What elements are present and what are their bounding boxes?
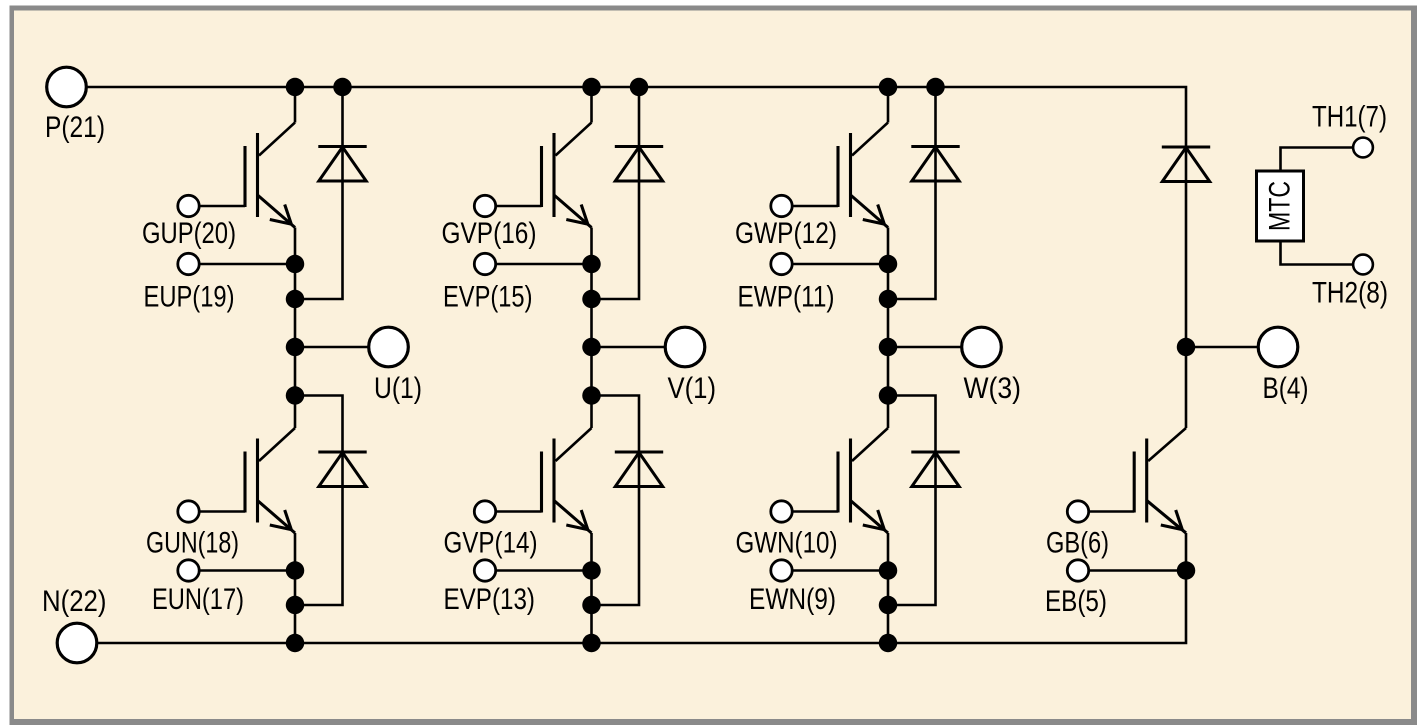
svg-text:GUN(18): GUN(18) xyxy=(146,527,239,560)
wire leg2 lower emitter to bottom bus xyxy=(590,533,593,643)
pin circle GVP(14) xyxy=(474,501,495,522)
wire leg3 collector drop from top bus xyxy=(887,87,890,123)
svg-text:GVP(14): GVP(14) xyxy=(444,527,538,560)
wire thermistor top lead xyxy=(1281,148,1353,172)
wire lower diode leg2 vertical xyxy=(592,396,640,606)
terminal N(22) xyxy=(57,623,97,663)
IGBT emitter diagonal upper leg3 xyxy=(851,195,889,228)
wire upper diode leg1 vertical xyxy=(295,87,343,299)
wire lower diode leg1 vertical xyxy=(295,396,343,606)
node leg1 output junction xyxy=(286,338,305,357)
node leg2 top bus junction xyxy=(582,78,601,97)
wire gate lead upper leg3 xyxy=(793,205,839,208)
IGBT gate bar upper leg3 xyxy=(836,146,839,207)
node leg3 upper emitter junction xyxy=(879,255,898,274)
wire gate lead lower leg1 xyxy=(200,510,246,513)
wire collector diagonal upper leg1 xyxy=(259,123,295,156)
pin circle GVP(16) xyxy=(474,195,495,216)
IGBT gate bar upper leg1 xyxy=(243,146,246,207)
node leg3 bottom bus junction xyxy=(879,634,898,653)
node leg3 lower emitter junction xyxy=(879,561,898,580)
node leg3 lower diode anode junction xyxy=(879,596,898,615)
pin circle GUN(18) xyxy=(178,501,199,522)
diode cathode bar lower leg3 xyxy=(911,450,959,453)
svg-text:W(3): W(3) xyxy=(964,372,1022,405)
node leg1 upper diode anode junction xyxy=(286,290,305,309)
svg-text:GUP(20): GUP(20) xyxy=(142,217,236,250)
svg-text:GVP(16): GVP(16) xyxy=(442,217,537,250)
pin circle TH2(8) xyxy=(1353,255,1373,275)
wire upper diode leg3 vertical xyxy=(888,87,936,299)
wire collector diagonal upper leg3 xyxy=(852,123,888,156)
IGBT emitter diagonal lower leg3 xyxy=(851,501,889,534)
IGBT emitter arrow brake Q7 xyxy=(1161,510,1183,530)
IGBT emitter arrow upper leg3 xyxy=(863,205,885,225)
wire output lead leg2 xyxy=(592,346,666,349)
svg-text:TH1(7): TH1(7) xyxy=(1312,101,1387,134)
wire collector diagonal upper leg2 xyxy=(556,123,592,156)
IGBT emitter diagonal lower leg2 xyxy=(554,501,592,534)
svg-text:TH2(8): TH2(8) xyxy=(1312,277,1388,310)
IGBT gate bar lower leg2 xyxy=(540,452,543,513)
wire emitter lead upper leg1 xyxy=(200,263,296,266)
node leg1 lower diode anode junction xyxy=(286,596,305,615)
IGBT emitter diagonal brake Q7 xyxy=(1147,501,1186,534)
wire upper diode leg2 vertical xyxy=(592,87,640,299)
IGBT body bar lower leg3 xyxy=(849,439,852,523)
pin circle EUN(17) xyxy=(178,560,199,581)
wire bottom bus N to right corner xyxy=(97,571,1186,644)
svg-text:EWP(11): EWP(11) xyxy=(738,281,835,314)
node leg1 lower emitter junction xyxy=(286,561,305,580)
IGBT body bar upper leg1 xyxy=(256,133,259,217)
node leg2 lower diode anode junction xyxy=(582,596,601,615)
node leg1 top bus junction xyxy=(286,78,305,97)
wire gate lead lower leg2 xyxy=(496,510,542,513)
svg-text:GWP(12): GWP(12) xyxy=(735,217,837,250)
svg-text:N(22): N(22) xyxy=(42,585,107,618)
IGBT emitter diagonal upper leg2 xyxy=(554,195,592,228)
wire brake collector drop xyxy=(1185,347,1188,428)
terminal P(21) xyxy=(47,67,87,107)
IGBT emitter diagonal upper leg1 xyxy=(258,195,296,228)
wire gate lead upper leg1 xyxy=(200,205,246,208)
wire collector diagonal lower leg1 xyxy=(259,428,295,461)
IGBT emitter arrow lower leg3 xyxy=(863,510,885,530)
IGBT emitter arrow lower leg2 xyxy=(566,510,588,530)
pin circle EB(5) xyxy=(1067,560,1088,581)
pin circle TH1(7) xyxy=(1353,138,1373,158)
diode cathode bar upper leg3 xyxy=(911,145,959,148)
svg-text:U(1): U(1) xyxy=(374,372,422,405)
diode triangle lower leg1 xyxy=(319,453,366,487)
svg-text:P(21): P(21) xyxy=(45,111,105,144)
wire leg1 phase vertical (upper emitter to lower collector kink) xyxy=(294,228,297,429)
wire collector diagonal brake Q7 xyxy=(1148,428,1186,461)
IGBT body bar brake Q7 xyxy=(1145,439,1148,523)
pin circle GB(6) xyxy=(1067,501,1088,522)
pin circle GUP(20) xyxy=(178,195,199,216)
IGBT gate bar upper leg2 xyxy=(540,146,543,207)
diode triangle upper leg1 xyxy=(319,147,366,181)
IGBT body bar upper leg2 xyxy=(552,133,555,217)
diode cathode bar upper leg2 xyxy=(615,145,663,148)
node brake emitter junction xyxy=(1177,561,1196,580)
diode triangle upper leg2 xyxy=(615,147,662,181)
svg-text:MTC: MTC xyxy=(1264,181,1297,231)
IGBT gate bar lower leg3 xyxy=(836,452,839,513)
IGBT emitter diagonal lower leg1 xyxy=(258,501,296,534)
wire leg1 collector drop from top bus xyxy=(294,87,297,123)
svg-text:EVP(13): EVP(13) xyxy=(444,583,536,616)
svg-text:EB(5): EB(5) xyxy=(1045,585,1107,618)
diode cathode bar brake D7 xyxy=(1162,145,1210,148)
svg-text:B(4): B(4) xyxy=(1263,372,1309,405)
IGBT gate bar lower leg1 xyxy=(243,452,246,513)
wire output lead leg1 xyxy=(295,346,369,349)
pin circle EWP(11) xyxy=(771,253,792,274)
svg-text:EUP(19): EUP(19) xyxy=(144,281,235,314)
wire emitter lead upper leg2 xyxy=(496,263,592,266)
svg-text:EUN(17): EUN(17) xyxy=(152,583,244,616)
pin circle GWP(12) xyxy=(771,195,792,216)
node leg1 lower diode cathode junction xyxy=(286,386,305,405)
node leg2 upper emitter junction xyxy=(582,255,601,274)
node leg2 lower emitter junction xyxy=(582,561,601,580)
node leg3 lower diode cathode junction xyxy=(879,386,898,405)
wire collector diagonal lower leg2 xyxy=(556,428,592,461)
node leg2 upper diode anode junction xyxy=(582,290,601,309)
wire emitter lead lower leg1 xyxy=(200,569,296,572)
svg-text:EVP(15): EVP(15) xyxy=(443,281,533,314)
IGBT body bar upper leg3 xyxy=(849,133,852,217)
wire output lead leg3 xyxy=(888,346,962,349)
wire gate lead brake xyxy=(1089,510,1134,513)
node leg3 diode top bus junction xyxy=(926,78,945,97)
wire emitter lead lower leg2 xyxy=(496,569,592,572)
node leg2 output junction xyxy=(582,338,601,357)
wire leg3 lower emitter to bottom bus xyxy=(887,533,890,643)
diode triangle brake D7 xyxy=(1162,148,1209,182)
wire lower diode leg3 vertical xyxy=(888,396,936,606)
IGBT emitter arrow upper leg2 xyxy=(566,205,588,225)
thermistor MTC body xyxy=(1257,171,1304,241)
wire gate lead lower leg3 xyxy=(793,510,839,513)
diode cathode bar lower leg2 xyxy=(615,450,663,453)
wire top bus P to right corner, down right side to brake B junction xyxy=(86,87,1186,347)
node leg1 diode top bus junction xyxy=(333,78,352,97)
terminal B(4) xyxy=(1258,327,1298,367)
wire thermistor bottom lead xyxy=(1281,241,1353,265)
pin circle EVP(13) xyxy=(474,560,495,581)
wire emitter lead upper leg3 xyxy=(793,263,889,266)
svg-text:V(1): V(1) xyxy=(668,372,717,405)
wire leg3 phase vertical (upper emitter to lower collector kink) xyxy=(887,228,890,429)
pin circle EWN(9) xyxy=(771,560,792,581)
node leg3 upper diode anode junction xyxy=(879,290,898,309)
IGBT body bar lower leg1 xyxy=(256,439,259,523)
node leg2 lower diode cathode junction xyxy=(582,386,601,405)
svg-text:EWN(9): EWN(9) xyxy=(749,583,836,616)
IGBT gate bar brake Q7 xyxy=(1133,452,1136,513)
wire leg2 collector drop from top bus xyxy=(590,87,593,123)
svg-text:GB(6): GB(6) xyxy=(1046,527,1109,560)
wire brake emitter to EB junction xyxy=(1185,533,1188,571)
wire leg1 lower emitter to bottom bus xyxy=(294,533,297,643)
pin circle EVP(15) xyxy=(474,253,495,274)
node leg1 upper emitter junction xyxy=(286,255,305,274)
svg-text:GWN(10): GWN(10) xyxy=(736,527,838,560)
diode triangle upper leg3 xyxy=(912,147,959,181)
IGBT emitter arrow lower leg1 xyxy=(270,510,292,530)
terminal U(1) xyxy=(369,327,409,367)
node leg1 bottom bus junction xyxy=(286,634,305,653)
node leg2 bottom bus junction xyxy=(582,634,601,653)
terminal V(1) xyxy=(665,327,705,367)
pin circle GWN(10) xyxy=(771,501,792,522)
diode cathode bar lower leg1 xyxy=(318,450,366,453)
wire collector diagonal lower leg3 xyxy=(852,428,888,461)
IGBT emitter arrow upper leg1 xyxy=(270,205,292,225)
diode cathode bar upper leg1 xyxy=(318,145,366,148)
diode triangle lower leg2 xyxy=(615,453,662,487)
node leg2 diode top bus junction xyxy=(630,78,649,97)
wire gate lead upper leg2 xyxy=(496,205,542,208)
terminal W(3) xyxy=(962,327,1002,367)
node leg3 output junction xyxy=(879,338,898,357)
diode triangle lower leg3 xyxy=(912,453,959,487)
node brake B junction xyxy=(1177,338,1196,357)
pin circle EUP(19) xyxy=(178,253,199,274)
wire emitter lead lower leg3 xyxy=(793,569,889,572)
wire B(4) lead xyxy=(1186,346,1259,349)
node leg3 top bus junction xyxy=(879,78,898,97)
IGBT body bar lower leg2 xyxy=(552,439,555,523)
wire leg2 phase vertical (upper emitter to lower collector kink) xyxy=(590,228,593,429)
wire emitter lead brake xyxy=(1089,569,1186,572)
